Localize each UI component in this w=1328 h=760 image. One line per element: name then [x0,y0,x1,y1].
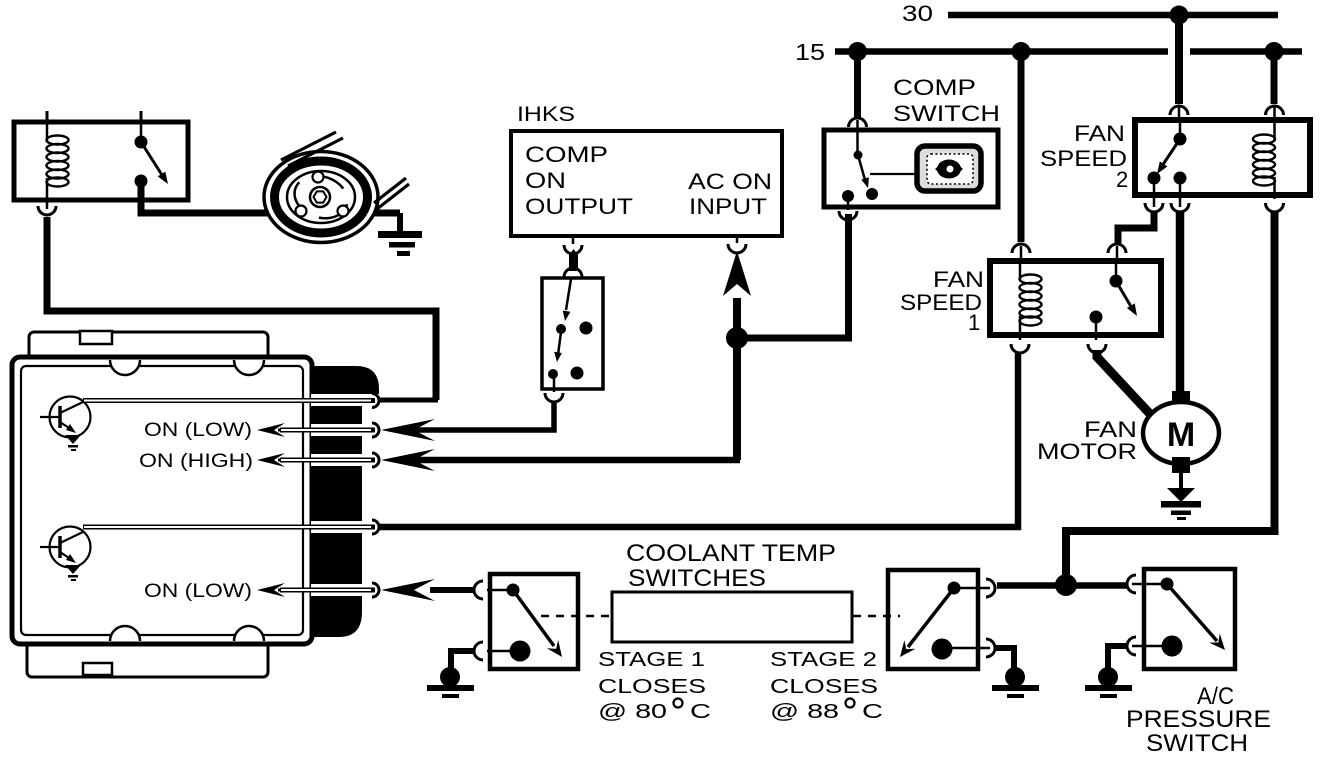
ground stage 1 [440,667,460,687]
svg-text:PRESSURE: PRESSURE [1126,706,1271,733]
wire 15 to fan speed 2 coil [1271,51,1278,104]
arrow into ECU ON LOW [381,419,435,441]
wire fan speed 2 NC to fan motor [1176,212,1185,394]
IHKS control unit box [511,131,782,236]
stage 2 switch box [888,570,978,669]
svg-text:1: 1 [968,310,980,335]
band slot row3 [311,454,363,466]
junction on bus 30 [1170,6,1189,25]
wire 15 to comp switch [854,51,861,117]
comp switch top connector [849,118,867,127]
dashed link stage1 [541,615,611,618]
junction B [1055,574,1077,596]
ground A/C pressure switch [1098,667,1118,687]
ECU control unit box [12,357,312,644]
fan speed 2 coil [1273,121,1276,141]
ECU top mounting tab [29,332,268,366]
svg-text:COMP: COMP [893,75,976,100]
band slot row1 [311,394,363,406]
comp switch relay box [824,130,998,207]
transistor Q1 [50,397,91,438]
svg-text:STAGE 1: STAGE 1 [598,649,705,671]
A/C pressure switch connectors [1132,583,1167,586]
svg-text:ON (HIGH): ON (HIGH) [139,450,253,472]
ECU top tab notch [80,331,112,344]
arrow into ECU ON LOW bottom [381,579,435,601]
ground compressor [378,231,422,238]
comp switch bottom connector [847,196,850,210]
svg-text:2: 2 [1116,167,1128,192]
relay K1 terminal stubs [46,111,49,123]
svg-text:C: C [690,701,711,723]
relay K1 box [14,122,188,200]
fan speed 1 relay box [990,261,1161,335]
stage 1 switch box [490,574,578,669]
band slot row5 [311,584,363,596]
ground transistor Q2 [65,565,81,574]
dashed link stage2 [853,615,900,618]
relay K1 coil [46,123,49,142]
A/C pressure switch contacts [1161,578,1174,591]
comp-on output switch box [542,278,603,389]
fan speed 1 switch [1115,262,1118,279]
svg-text:@ 80: @ 80 [598,701,667,723]
arrow into AC ON INPUT [723,251,751,296]
bus 30 wire [948,12,1278,19]
junction bus15 A [848,42,867,61]
svg-text:FAN: FAN [933,267,984,292]
svg-text:ON (LOW): ON (LOW) [144,580,252,602]
svg-text:ON (LOW): ON (LOW) [144,419,252,441]
svg-text:SPEED: SPEED [1040,146,1127,171]
fan motor M1 [1172,391,1190,407]
fan speed 2 top connectors [1170,106,1188,115]
ground stage 2 [1005,667,1025,687]
arrow into ECU ON HIGH [381,449,435,471]
junction bus15 B [1012,42,1031,61]
comp-on output switch contacts [566,279,571,310]
transistor Q2 [50,527,91,568]
IHKS comp-on output connector [572,236,575,244]
junction bus15 C [1265,42,1284,61]
junction AC-ON node [726,327,748,349]
ground fan motor [1179,473,1183,491]
svg-text:IHKS: IHKS [517,103,575,126]
svg-text:AC ON: AC ON [688,169,772,194]
ECU bottom tab notch [83,663,112,675]
svg-text:30: 30 [902,1,933,26]
fan speed 1 coil [1019,262,1022,280]
band slot row2 [311,424,363,436]
A/C pressure switch box [1144,569,1235,669]
ECU bottom edge bumps [110,626,140,641]
svg-text:OUTPUT: OUTPUT [525,194,633,219]
svg-text:COMP: COMP [525,142,608,167]
relay K1 switch [140,123,143,140]
svg-text:CLOSES: CLOSES [598,676,706,698]
wire ECU ON LOW bottom to stage1 switch [430,587,474,593]
stage 2 connectors [954,587,990,590]
svg-text:SWITCH: SWITCH [1146,730,1248,757]
ECU row1 wire [83,398,375,403]
comp-on output switch bottom connector [553,378,556,392]
ECU bottom mounting tab [27,634,268,677]
svg-text:@ 88: @ 88 [770,701,839,723]
wire AC-ON node to ECU ON HIGH [733,298,741,460]
coolant temp sensor body [612,592,852,642]
comp switch contact dots [842,190,854,202]
fan speed 2 switch [1179,121,1182,137]
wire relay K1 to compressor clutch [141,185,400,213]
fan speed 2 relay box [1135,120,1310,195]
svg-text:SWITCHES: SWITCHES [628,565,766,592]
svg-text:INPUT: INPUT [689,194,767,219]
stage 1 connectors [487,589,513,592]
wire ECU low output to relay K1 coil [47,217,436,400]
ECU top edge bumps [110,360,140,375]
fan speed 1 bottom connectors [1095,317,1098,340]
wire junction B to stage2 / AC pressure switch [997,582,1127,589]
band slot row4 [311,521,363,533]
wire fan speed 2 NO to fan speed 1 common [1118,212,1154,243]
ECU harness band [312,366,379,394]
comp switch arm [858,155,865,180]
svg-text:FAN: FAN [1074,121,1125,146]
svg-text:COOLANT TEMP: COOLANT TEMP [626,540,836,567]
wire fan speed 2 coil to junction B [1066,212,1275,580]
stage 1 switch contacts [507,584,520,597]
wire 30 to fan speed 2 common [1175,15,1183,104]
stage 2 switch contacts [948,582,961,595]
wire stage2 lower to ground [995,648,1014,670]
fan speed 1 top connectors [1012,244,1030,253]
comp switch button icon [870,173,917,175]
svg-text:SWITCH: SWITCH [893,101,1000,126]
svg-text:STAGE 2: STAGE 2 [770,649,877,671]
svg-text:15: 15 [795,39,825,65]
ground transistor Q1 [65,435,81,444]
wire stage1 lower to ground [451,651,474,670]
wire comp-on switch to ECU ON LOW [400,402,554,430]
fan speed 2 bottom connectors [1153,178,1156,207]
comp switch pivot [854,151,863,160]
svg-text:C: C [862,701,883,723]
svg-text:M: M [1167,416,1195,454]
drive belt [281,132,336,160]
wire comp switch to AC-ON node [737,214,849,338]
wire fan speed 1 switch to fan motor [1097,350,1151,415]
wire ECU output to fan speed 1 coil [378,353,1018,527]
wire 15 to fan speed 1 coil [1018,51,1025,242]
wire A/C switch lower to ground [1108,646,1127,670]
svg-text:ON: ON [525,168,566,193]
svg-text:MOTOR: MOTOR [1037,439,1137,464]
IHKS ac-on input connector [736,236,739,243]
bus 15 wire [835,48,1168,55]
svg-text:CLOSES: CLOSES [770,676,878,698]
compressor clutch pulley [264,152,378,243]
relay K1 bottom connector [46,199,49,209]
ECU row4 wire [83,525,375,530]
